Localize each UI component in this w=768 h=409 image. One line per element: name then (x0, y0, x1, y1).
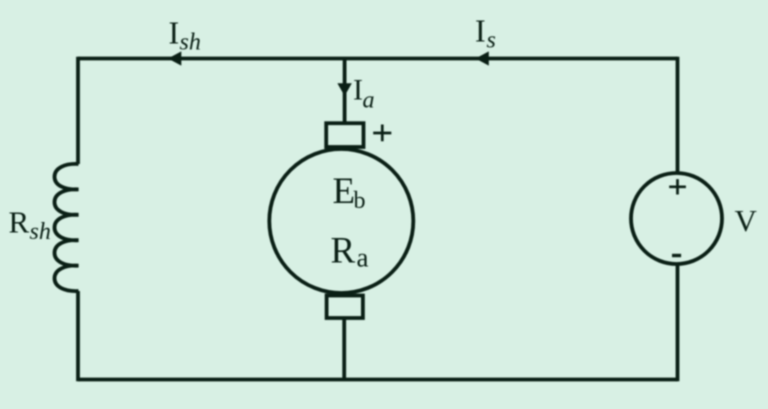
svg-text:V: V (735, 203, 758, 238)
brush top rectangle (326, 123, 363, 147)
brush bottom rectangle (327, 296, 363, 319)
svg-text:sh: sh (180, 30, 201, 56)
svg-text:sh: sh (30, 219, 51, 245)
wire right vertical lower (676, 263, 680, 381)
plus sign inside source (669, 179, 686, 194)
svg-text:s: s (487, 28, 496, 54)
wire top horizontal (78, 57, 678, 61)
svg-text:I: I (353, 74, 363, 107)
svg-text:a: a (357, 243, 369, 273)
arrow Is current left (476, 51, 489, 65)
svg-text:a: a (363, 88, 375, 114)
wire bottom horizontal (78, 378, 678, 382)
svg-text:R: R (331, 231, 356, 272)
arrow Ish current left (168, 51, 181, 65)
svg-text:I: I (475, 13, 486, 49)
svg-text:E: E (333, 171, 356, 212)
svg-text:b: b (354, 188, 366, 214)
wire left vertical lower (76, 291, 80, 381)
wire middle vertical from motor bottom (342, 318, 346, 380)
inductor Rsh coil (55, 164, 79, 291)
motor armature circle Eb Ra (269, 149, 413, 293)
arrow Ia current down (337, 83, 351, 96)
plus sign at top brush (373, 125, 391, 142)
svg-text:R: R (9, 205, 30, 240)
wire left vertical upper (76, 57, 80, 164)
wire middle vertical to motor top (343, 59, 347, 124)
minus sign of source (672, 254, 681, 257)
wire right vertical upper (676, 57, 680, 174)
svg-text:I: I (169, 15, 180, 51)
voltage source V circle (631, 173, 722, 264)
